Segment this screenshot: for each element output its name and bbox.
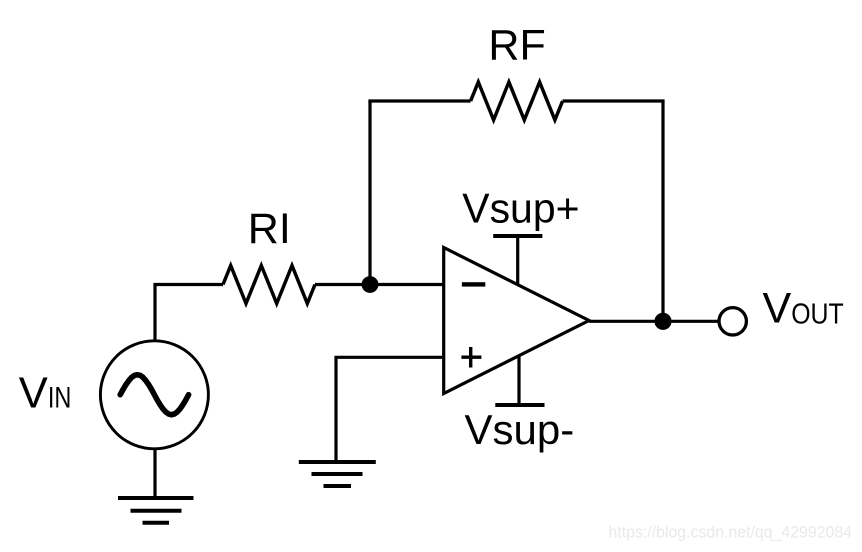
wire from RI to op-amp inverting input (315, 283, 444, 286)
resistor RI (223, 266, 315, 304)
voltage source sine wave (120, 375, 188, 415)
ground for VIN source (118, 498, 194, 523)
op-amp non-inverting input plus sign (461, 347, 481, 368)
wire feedback top left horizontal (368, 99, 470, 102)
wire from VIN source top up to input line (155, 285, 223, 342)
op-amp U1 (444, 248, 589, 394)
node A (summing junction dot) (362, 276, 379, 293)
svg-text:https://blog.csdn.net/qq_42992: https://blog.csdn.net/qq_42992084 (609, 523, 853, 542)
terminal VOUT open circle (719, 308, 746, 335)
op-amp inverting input minus sign (462, 282, 485, 286)
wire feedback top right horizontal (563, 99, 665, 102)
svg-text:RF: RF (488, 21, 545, 69)
wire op-amp output to terminal (589, 320, 719, 323)
wire feedback right vertical down to output (661, 101, 664, 321)
svg-text:Vsup+: Vsup+ (462, 184, 579, 231)
resistor RF (471, 82, 563, 120)
Vsup- supply bar (495, 356, 544, 406)
svg-text:Vsup-: Vsup- (465, 406, 575, 453)
voltage source VIN circle (100, 341, 208, 449)
svg-text:RI: RI (248, 205, 291, 253)
wire to non-inverting input with elbow down (336, 357, 444, 462)
node B (output junction dot) (654, 313, 671, 330)
wire feedback left vertical (368, 101, 371, 285)
wire VIN source bottom to ground (153, 449, 156, 498)
ground for non-inverting input (299, 462, 376, 486)
Vsup+ supply bar (493, 236, 542, 286)
